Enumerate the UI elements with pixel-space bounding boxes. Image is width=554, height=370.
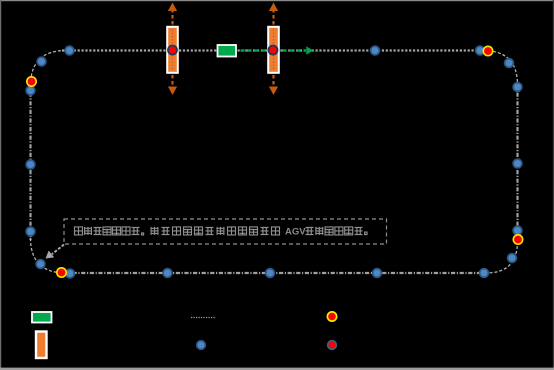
legend blue nail dot bbox=[197, 341, 206, 350]
nail top-3 bbox=[476, 46, 485, 55]
curve marker nail BR (yellow ring, red core) bbox=[513, 234, 524, 245]
stop nail under AGV2 (red, dark-blue ring) bbox=[269, 46, 278, 55]
AGV1 up arrow bbox=[168, 3, 177, 25]
nail BL-curve bbox=[36, 260, 45, 269]
blue magnetic nail dots bbox=[26, 46, 522, 278]
callout leader line bbox=[52, 245, 64, 255]
wire: top-right corner arc bbox=[483, 51, 518, 86]
AGV2 down arrow bbox=[269, 75, 278, 95]
nail right-2 bbox=[513, 159, 522, 168]
nail left-2 bbox=[26, 160, 35, 169]
AGV2 up arrow bbox=[269, 3, 278, 25]
nail bottom-3 bbox=[266, 269, 275, 278]
nail bottom-5 bbox=[480, 269, 489, 278]
stop nail under AGV1 (red, dark-blue ring) bbox=[168, 46, 177, 55]
callout leader arrowhead bbox=[46, 251, 55, 259]
wire: bottom-left corner arc bbox=[31, 238, 67, 273]
nail bottom-2 bbox=[163, 269, 172, 278]
nail top-2 bbox=[371, 46, 380, 55]
nail right-1 bbox=[513, 226, 522, 235]
nail left-3 bbox=[26, 227, 35, 236]
nail right-3 bbox=[513, 83, 522, 92]
nail bottom-4 bbox=[373, 269, 382, 278]
wire: bottom-right corner arc bbox=[486, 241, 518, 273]
curve marker nail TL (yellow ring, red core) bbox=[26, 76, 37, 87]
nail top-1 bbox=[65, 46, 74, 55]
wire: bottom edge dash-dot track bbox=[64, 272, 488, 274]
legend orange AGV rect bbox=[36, 332, 47, 359]
legend curve marker nail bbox=[327, 311, 338, 322]
nail TR-curve bbox=[505, 59, 514, 68]
nail left-1 bbox=[26, 86, 35, 95]
AGV vehicle rectangle 2 (orange, white border) bbox=[268, 27, 279, 73]
curve marker nail TR (yellow ring, red core) bbox=[483, 46, 494, 57]
legend stop nail bbox=[328, 341, 337, 350]
svg-text:AGV: AGV bbox=[285, 227, 306, 238]
wire: top edge dotted track bbox=[62, 49, 487, 51]
wire: left edge dash-dot track bbox=[29, 84, 31, 240]
green travel-direction dashed arrow bbox=[241, 46, 314, 55]
wire: right edge dash-dot track bbox=[516, 84, 518, 242]
legend green station rect bbox=[32, 312, 52, 323]
callout box (dashed) bbox=[64, 219, 387, 244]
green station rectangle (white border) bbox=[218, 45, 237, 57]
wire: top-left corner arc bbox=[31, 51, 67, 87]
nail TL-curve bbox=[37, 57, 46, 66]
nail BR-curve bbox=[508, 254, 517, 263]
curve marker nail BL (yellow ring, red core) bbox=[56, 267, 67, 278]
callout text (pseudo CJK glyph strokes) bbox=[75, 227, 368, 238]
nail bottom-1 bbox=[66, 269, 75, 278]
AGV1 down arrow bbox=[168, 75, 177, 95]
legend dotted track sample bbox=[191, 317, 215, 319]
AGV vehicle rectangle 1 (orange, white border) bbox=[167, 27, 178, 73]
